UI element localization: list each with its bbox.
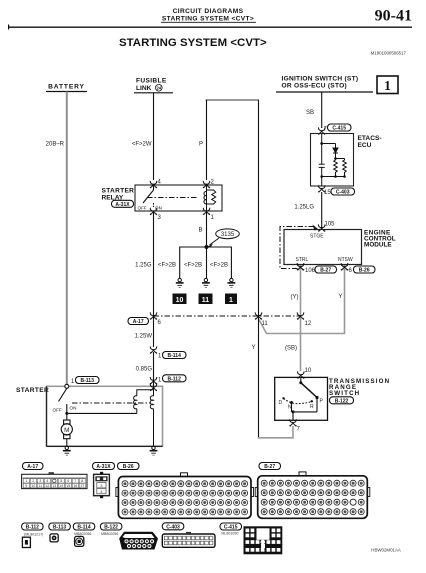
svg-text:STARTER: STARTER	[102, 188, 135, 195]
connector B-112 body	[22, 537, 30, 547]
wire gray top link	[206, 99, 260, 101]
connector C-415 body	[244, 526, 283, 554]
svg-text:0.85G: 0.85G	[136, 367, 153, 373]
starter pin label 1 B-113	[71, 379, 75, 385]
ground 10	[173, 278, 187, 304]
capacitor C	[319, 163, 325, 165]
wire B relay pin1 to joint	[206, 211, 208, 247]
wire 0.85G	[153, 352, 155, 386]
svg-text:10: 10	[31, 484, 35, 488]
svg-text:OFF: OFF	[53, 408, 62, 413]
terminal A-17 pin 11	[255, 312, 269, 327]
resistor R1	[334, 160, 338, 177]
svg-text:B-112: B-112	[26, 525, 40, 531]
diode D	[333, 148, 338, 153]
fusible link label	[134, 78, 173, 93]
svg-text:6: 6	[67, 479, 69, 483]
connector label B-122 pinout	[100, 523, 122, 531]
svg-text:NTSW: NTSW	[338, 257, 353, 263]
svg-text:20B–R: 20B–R	[46, 142, 65, 148]
svg-text:106: 106	[305, 268, 316, 274]
svg-text:3135: 3135	[221, 232, 235, 238]
svg-text:LINK: LINK	[136, 85, 152, 92]
connector B-113 body	[50, 534, 58, 542]
wire top branch	[322, 143, 336, 145]
svg-text:C-415: C-415	[224, 525, 238, 531]
svg-text:ON: ON	[70, 406, 77, 411]
wire F2W fusible link to relay pin4	[153, 93, 155, 180]
TRS label	[329, 378, 390, 397]
svg-text:SB: SB	[306, 110, 314, 116]
connector label B-26 pinout	[118, 463, 140, 471]
svg-text:4: 4	[46, 479, 48, 483]
svg-text:ECU: ECU	[358, 142, 372, 149]
node junction	[205, 245, 209, 249]
svg-text:10: 10	[176, 297, 184, 304]
transmission range switch box	[275, 377, 328, 420]
terminal overdraw pin 6	[341, 263, 348, 270]
terminal TRS pin 10	[297, 368, 312, 379]
wire battery cable 20B-R	[66, 92, 68, 386]
svg-text:STRL: STRL	[296, 257, 309, 263]
relay coil	[204, 185, 216, 211]
battery label	[46, 84, 87, 92]
svg-text:OR OSS-ECU (STO): OR OSS-ECU (STO)	[282, 83, 347, 90]
svg-text:A-31X: A-31X	[115, 202, 130, 208]
ground 11	[199, 278, 213, 304]
terminal TRS pin 7	[289, 419, 300, 432]
svg-text:7: 7	[74, 479, 76, 483]
svg-text:C-403: C-403	[336, 190, 350, 196]
svg-text:B-114: B-114	[77, 525, 91, 531]
svg-text:FUSIBLE: FUSIBLE	[136, 78, 167, 85]
starter linkage dash-dot	[72, 402, 150, 404]
terminal pin 15 C-403	[318, 185, 331, 196]
svg-text:Y: Y	[338, 294, 342, 300]
resistor R2	[343, 159, 347, 177]
svg-text:1: 1	[25, 479, 27, 483]
connector label C-403	[331, 188, 355, 196]
svg-text:14: 14	[59, 484, 63, 488]
ground starter motor	[63, 446, 71, 456]
wire (Y)/(SB) ECM 106 to TRS 10	[300, 265, 302, 371]
svg-text:105: 105	[325, 222, 336, 228]
header rule	[8, 25, 412, 30]
wire entry	[321, 134, 323, 165]
node dots ETACS	[320, 142, 323, 145]
svg-text:STARTING SYSTEM <CVT>: STARTING SYSTEM <CVT>	[119, 37, 267, 49]
wire SB ignition to ETACS pin7	[321, 92, 323, 128]
svg-text:B-114: B-114	[168, 353, 182, 359]
connector B-26 body	[116, 473, 254, 519]
svg-text:MB802056: MB802056	[101, 532, 118, 536]
terminal B-114 pin 1	[150, 346, 162, 359]
terminal A-17 pin 6	[150, 312, 162, 326]
starter relay label	[102, 188, 135, 202]
svg-text:IGNITION SWITCH (ST): IGNITION SWITCH (ST)	[282, 76, 359, 83]
wire 1.25G relay pin3 down	[153, 211, 155, 347]
wire switch to coils	[67, 412, 137, 414]
ignition switch label	[276, 76, 373, 93]
connector label A-31X	[112, 200, 134, 208]
wire solenoid entry	[153, 384, 155, 390]
relay box	[135, 185, 222, 211]
ground 1	[225, 278, 237, 304]
svg-text:17: 17	[80, 484, 84, 488]
svg-text:OFF: OFF	[138, 206, 147, 211]
svg-text:N: N	[288, 404, 292, 410]
svg-text:<F>2B: <F>2B	[158, 263, 176, 269]
terminal pin 2	[203, 180, 215, 189]
dash-dot OSS-ECU variant path near ECM	[280, 227, 314, 269]
connector label A-17 pinout	[23, 463, 44, 471]
terminal pin 1	[203, 208, 215, 221]
svg-text:A-17: A-17	[27, 464, 38, 470]
svg-text:B-122: B-122	[335, 398, 349, 404]
starter terminal circle	[65, 384, 69, 388]
svg-text:C-415: C-415	[332, 126, 346, 132]
svg-text:B-113: B-113	[53, 525, 67, 531]
mechanical linkage dash-dot	[147, 197, 198, 199]
wire ground bus	[180, 247, 232, 279]
svg-text:9: 9	[25, 484, 27, 488]
svg-text:12: 12	[305, 321, 312, 327]
connector label B-113 pinout	[49, 523, 71, 531]
svg-text:B-113: B-113	[81, 378, 95, 384]
TRS internals	[284, 377, 318, 420]
svg-text:15: 15	[66, 484, 70, 488]
svg-text:1.25LG: 1.25LG	[294, 205, 314, 211]
svg-text:A-17: A-17	[133, 319, 144, 325]
svg-text:B-27: B-27	[264, 464, 275, 470]
svg-text:11: 11	[262, 321, 269, 327]
connector label C-415	[328, 124, 352, 132]
joint connector 3135	[208, 229, 240, 248]
wire to A-17 pin 11	[258, 100, 260, 316]
terminal pin 6 B-26	[341, 263, 353, 274]
svg-text:3: 3	[39, 479, 41, 483]
terminal overdraw pin 106	[297, 263, 304, 270]
svg-text:B-122: B-122	[104, 525, 118, 531]
svg-text:CIRCUIT DIAGRAMS: CIRCUIT DIAGRAMS	[173, 8, 244, 15]
svg-text:(SB): (SB)	[285, 346, 297, 352]
svg-text:1.25G: 1.25G	[135, 263, 152, 269]
wire P to relay pin2	[206, 100, 208, 180]
svg-text:B-112: B-112	[168, 376, 182, 382]
ETACS-ECU box	[311, 134, 354, 187]
svg-text:BATTERY: BATTERY	[48, 84, 85, 91]
svg-text:P: P	[199, 142, 203, 148]
svg-text:10: 10	[305, 368, 312, 374]
svg-text:90-41: 90-41	[375, 8, 412, 25]
svg-text:1.25W: 1.25W	[135, 334, 153, 340]
starter pull-in coil	[134, 390, 154, 414]
connector label A-31X pinout	[93, 463, 115, 471]
svg-text:5: 5	[60, 479, 62, 483]
connector label B-27 pinout	[259, 463, 281, 471]
svg-text:MODULE: MODULE	[364, 241, 392, 248]
svg-text:<F>2B: <F>2B	[184, 263, 202, 269]
reference box 1	[377, 76, 398, 94]
header page ref text	[161, 8, 256, 23]
pin 105	[318, 222, 335, 232]
svg-text:C-403: C-403	[166, 524, 180, 530]
svg-text:STARTING SYSTEM <CVT>: STARTING SYSTEM <CVT>	[162, 16, 254, 23]
svg-text:1: 1	[384, 78, 391, 93]
ground starter coil	[150, 446, 158, 456]
svg-text:ML801090: ML801090	[221, 531, 238, 535]
starter box	[47, 386, 163, 446]
wire right branch	[336, 158, 345, 160]
wire Y to TRS pin 7	[258, 316, 260, 438]
connector B-27 body	[255, 472, 370, 518]
connector C-403 body	[162, 532, 215, 547]
connector B-114 body	[75, 536, 84, 546]
svg-text:B: B	[198, 228, 202, 234]
svg-text:A-31X: A-31X	[96, 464, 111, 470]
svg-text:2: 2	[32, 479, 34, 483]
terminal A-17 pin 12	[297, 312, 312, 327]
terminal B-112 pin 1	[150, 377, 162, 384]
terminal pin 7 C-415	[318, 127, 328, 135]
svg-text:24: 24	[156, 86, 161, 91]
connector A-17 body	[22, 472, 87, 488]
svg-text:<F>2B: <F>2B	[210, 263, 228, 269]
connector B-122 body	[119, 532, 158, 550]
svg-text:11: 11	[38, 484, 42, 488]
svg-text:B-26: B-26	[123, 464, 134, 470]
connector label B-112 pinout	[22, 523, 43, 531]
connector A-31X body	[94, 472, 110, 498]
svg-text:(ML801217): (ML801217)	[24, 533, 43, 537]
wire bottom rail	[322, 176, 345, 178]
svg-text:ETACS-: ETACS-	[358, 135, 382, 142]
connector label C-415 pinout	[220, 523, 242, 531]
starter switch	[59, 388, 67, 413]
svg-text:13: 13	[52, 484, 56, 488]
svg-text:12: 12	[45, 484, 49, 488]
svg-text:SWITCH: SWITCH	[329, 390, 360, 397]
svg-text:D: D	[279, 400, 283, 406]
connector label B-114 pinout	[73, 523, 95, 531]
ETACS internals	[319, 134, 347, 187]
svg-text:B-27: B-27	[320, 268, 331, 274]
svg-text:1: 1	[229, 297, 233, 304]
svg-text:STGE: STGE	[310, 233, 324, 239]
wire Y ECM 6 down and left	[259, 265, 345, 334]
connector label C-403 pinout	[162, 523, 184, 531]
terminal pin 4	[150, 180, 162, 189]
svg-text:<F>2W: <F>2W	[132, 142, 152, 148]
wire 1.25LG to ECM 105	[321, 192, 323, 230]
svg-text:R: R	[310, 404, 314, 410]
svg-text:(Y): (Y)	[291, 295, 299, 301]
svg-text:11: 11	[202, 297, 210, 304]
svg-text:Y: Y	[251, 345, 255, 351]
starter motor M	[61, 413, 72, 446]
svg-text:16: 16	[73, 484, 77, 488]
svg-text:M: M	[64, 427, 69, 434]
connector label A-17	[128, 318, 149, 326]
terminal pin 106 B-27	[297, 263, 316, 274]
svg-text:MB802056: MB802056	[74, 532, 91, 536]
starter hold-in coil	[150, 390, 153, 447]
dash-dot intermediate connector A-17 line	[154, 315, 301, 317]
svg-text:8: 8	[81, 479, 83, 483]
svg-text:STARTER: STARTER	[16, 387, 49, 394]
svg-text:B-26: B-26	[359, 268, 370, 274]
relay switch	[143, 185, 154, 207]
terminal pin 3	[150, 208, 162, 221]
engine control module box	[284, 230, 362, 265]
svg-text:HBW02M01AA: HBW02M01AA	[371, 548, 401, 553]
svg-text:15: 15	[324, 190, 331, 196]
svg-text:M1901000506517: M1901000506517	[371, 51, 407, 56]
